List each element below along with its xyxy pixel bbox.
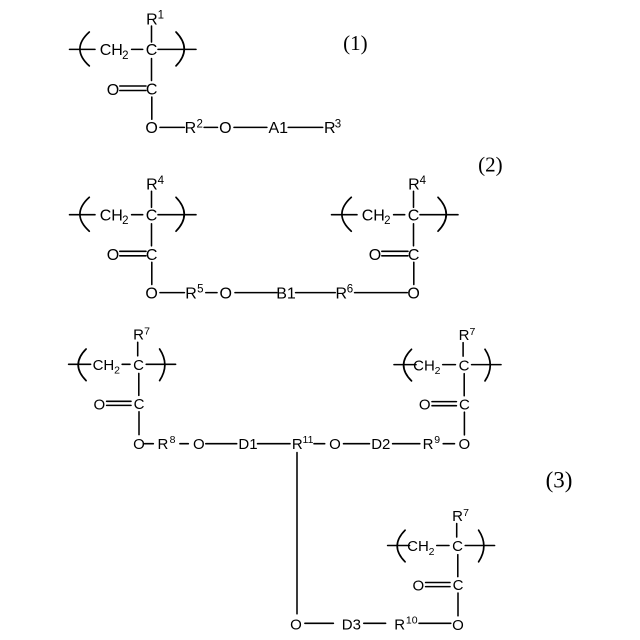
bond C(=O)-O ester [138,412,140,435]
svg-text:4: 4 [158,175,165,187]
svg-text:CH: CH [93,357,115,374]
svg-text:2: 2 [429,546,435,558]
repeat unit 2B: backbone left line [332,214,358,216]
bond R7-C [456,524,458,538]
svg-text:O: O [107,82,119,99]
svg-text:C: C [408,208,420,225]
bond D2-R9 [393,443,420,445]
svg-text:2: 2 [196,118,202,130]
svg-text:2: 2 [122,50,128,62]
formula 2 chain: bond O-R5 [160,292,184,294]
svg-text:(1): (1) [343,31,368,55]
bond C(=O)-O ester [457,593,459,616]
repeat unit 3A: backbone right line [146,363,175,365]
svg-text:2: 2 [122,215,128,227]
svg-text:C: C [453,577,464,594]
double bond C=O [120,250,146,252]
repeat unit 3B: backbone right line [472,364,501,366]
repeat unit 3C: backbone right line [465,545,494,547]
repeat unit 3B: bond CH2-C [443,364,456,366]
svg-text:2: 2 [435,365,441,377]
svg-text:R: R [292,436,303,453]
svg-text:O: O [145,120,157,137]
bond O-D1 [206,443,237,445]
double bond C=O [432,401,456,403]
svg-text:C: C [459,396,470,413]
svg-text:D2: D2 [371,436,390,453]
repeat unit 3C: bond CH2-C [437,545,449,547]
double bond C=O [426,582,450,584]
bond R8-O [180,443,188,445]
svg-text:7: 7 [144,326,150,338]
double bond C=O [120,85,146,87]
svg-text:O: O [412,578,424,595]
bond C(=O)-O ester [151,262,153,284]
bond O-B1 [235,292,277,294]
svg-text:R: R [133,327,144,344]
svg-text:CH: CH [100,42,123,59]
bond O-A1 [234,126,267,128]
svg-text:C: C [134,396,145,413]
bond R4-C [413,191,415,207]
repeat unit 2B: bond CH2-C [394,214,405,216]
svg-text:9: 9 [434,434,440,446]
repeat unit 3B: right parenthesis [485,349,490,381]
bond R6-O long [355,292,408,294]
bond C-C(=O) [151,224,153,246]
svg-text:R: R [423,436,434,453]
bond R2-O [204,126,217,128]
svg-text:O: O [369,247,381,264]
repeat unit 3B: left parenthesis [404,349,412,381]
svg-text:O: O [219,120,231,137]
repeat unit 3A: backbone left line [69,363,91,365]
bond C(=O)-O ester [463,412,465,435]
svg-text:O: O [193,436,205,453]
repeat unit 3C: backbone left line [388,545,410,547]
svg-text:8: 8 [170,434,176,446]
svg-text:O: O [329,436,341,453]
svg-text:R: R [157,436,168,453]
svg-text:6: 6 [347,283,353,295]
svg-text:R: R [452,508,463,525]
svg-text:C: C [408,247,420,264]
svg-text:10: 10 [406,614,418,626]
svg-text:3: 3 [335,119,341,131]
svg-text:O: O [107,247,119,264]
svg-text:(3): (3) [546,468,573,493]
svg-text:5: 5 [197,283,203,295]
bond C-C(=O) [457,555,459,577]
bond O-D2 [344,443,370,445]
svg-text:1: 1 [158,10,164,22]
repeat unit 2B: right parenthesis [438,197,446,231]
repeat unit 2B: left parenthesis [342,197,351,231]
svg-text:C: C [146,247,158,264]
svg-text:CH: CH [413,357,435,374]
repeat unit 3B: backbone left line [394,364,416,366]
svg-text:R: R [185,120,197,137]
svg-text:CH: CH [362,208,385,225]
bond R11-O [314,443,325,445]
svg-text:O: O [407,286,419,303]
svg-text:O: O [93,396,105,413]
bond R9-O [443,443,454,445]
repeat unit 1A: right parenthesis [176,32,184,66]
double bond C=O [382,250,408,252]
svg-text:11: 11 [303,434,314,446]
svg-text:C: C [146,42,158,59]
svg-text:7: 7 [463,507,469,519]
bond O-D3 [305,622,334,624]
repeat unit 1A: backbone right line [158,48,196,50]
svg-text:4: 4 [420,175,427,187]
svg-text:B1: B1 [276,286,296,303]
bond C(=O)-O ester [151,97,153,119]
svg-text:C: C [133,357,144,374]
repeat unit 2B: backbone right line [420,214,458,216]
formula 3 chain: bond O-R8 [145,443,154,445]
svg-text:2: 2 [384,215,390,227]
svg-text:R: R [394,616,405,633]
svg-text:C: C [146,208,158,225]
svg-text:A1: A1 [269,120,289,137]
repeat unit 2A: backbone left line [70,214,96,216]
bond D1-R11 [258,443,291,445]
double bond C=O [107,400,131,402]
repeat unit 2A: backbone right line [158,214,196,216]
formula 1 chain: bond O-R2 [160,126,184,128]
svg-text:D1: D1 [238,436,257,453]
svg-text:O: O [219,286,231,303]
repeat unit 3C: right parenthesis [479,530,484,562]
bond R4-C [151,191,153,207]
svg-text:C: C [146,82,158,99]
bond C-C(=O) [151,59,153,81]
svg-text:R: R [336,286,348,303]
bond A1-R3 [288,126,323,128]
repeat unit 1A: bond CH2-C [132,48,143,50]
branch bond R11 down to O [296,453,298,614]
repeat unit 1A: left parenthesis [80,32,89,66]
svg-text:7: 7 [469,326,475,338]
bond R1-C [151,26,153,42]
repeat unit 3A: left parenthesis [78,349,86,381]
svg-text:(2): (2) [478,153,503,177]
svg-text:CH: CH [100,208,123,225]
bond R7-C [462,343,464,357]
svg-text:C: C [452,538,463,555]
bond C-C(=O) [413,224,415,246]
repeat unit 2A: bond CH2-C [132,214,143,216]
repeat unit 3A: right parenthesis [160,349,165,381]
repeat unit 2A: right parenthesis [176,197,184,231]
repeat unit 3C: left parenthesis [397,530,405,562]
svg-text:O: O [145,286,157,303]
bond C(=O)-O ester [413,262,415,284]
repeat unit 3A: bond CH2-C [122,363,130,365]
repeat unit 2A: left parenthesis [80,197,89,231]
svg-text:R: R [459,327,470,344]
bond R5-O [206,292,217,294]
svg-text:CH: CH [407,538,429,555]
svg-text:O: O [290,616,302,633]
bond D3-R10 [364,622,386,624]
svg-text:R: R [185,286,197,303]
bond B1-R6 [296,292,336,294]
svg-text:O: O [133,436,145,453]
bond R7-C [137,342,139,356]
svg-text:C: C [459,357,470,374]
svg-text:D3: D3 [342,616,361,633]
repeat unit 1A: backbone left line [70,48,96,50]
bond C-C(=O) [463,374,465,396]
bond R10-O [419,622,451,624]
svg-text:O: O [458,436,470,453]
bond C-C(=O) [138,373,140,395]
svg-text:O: O [419,397,431,414]
svg-text:O: O [452,617,464,634]
svg-text:2: 2 [114,365,120,377]
